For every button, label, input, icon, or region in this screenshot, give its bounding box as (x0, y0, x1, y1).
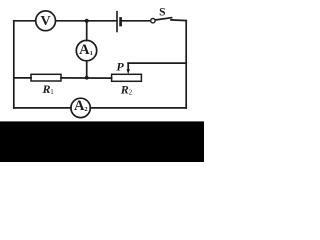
svg-text:A: A (79, 42, 90, 58)
svg-text:1: 1 (50, 88, 54, 96)
svg-text:R: R (41, 82, 50, 96)
svg-text:S: S (159, 6, 165, 18)
svg-text:R: R (120, 82, 129, 96)
svg-text:P: P (116, 59, 124, 73)
svg-text:2: 2 (129, 89, 133, 97)
svg-text:1: 1 (90, 50, 93, 57)
svg-text:V: V (41, 14, 51, 29)
svg-text:2: 2 (84, 106, 87, 113)
svg-text:A: A (74, 98, 85, 114)
